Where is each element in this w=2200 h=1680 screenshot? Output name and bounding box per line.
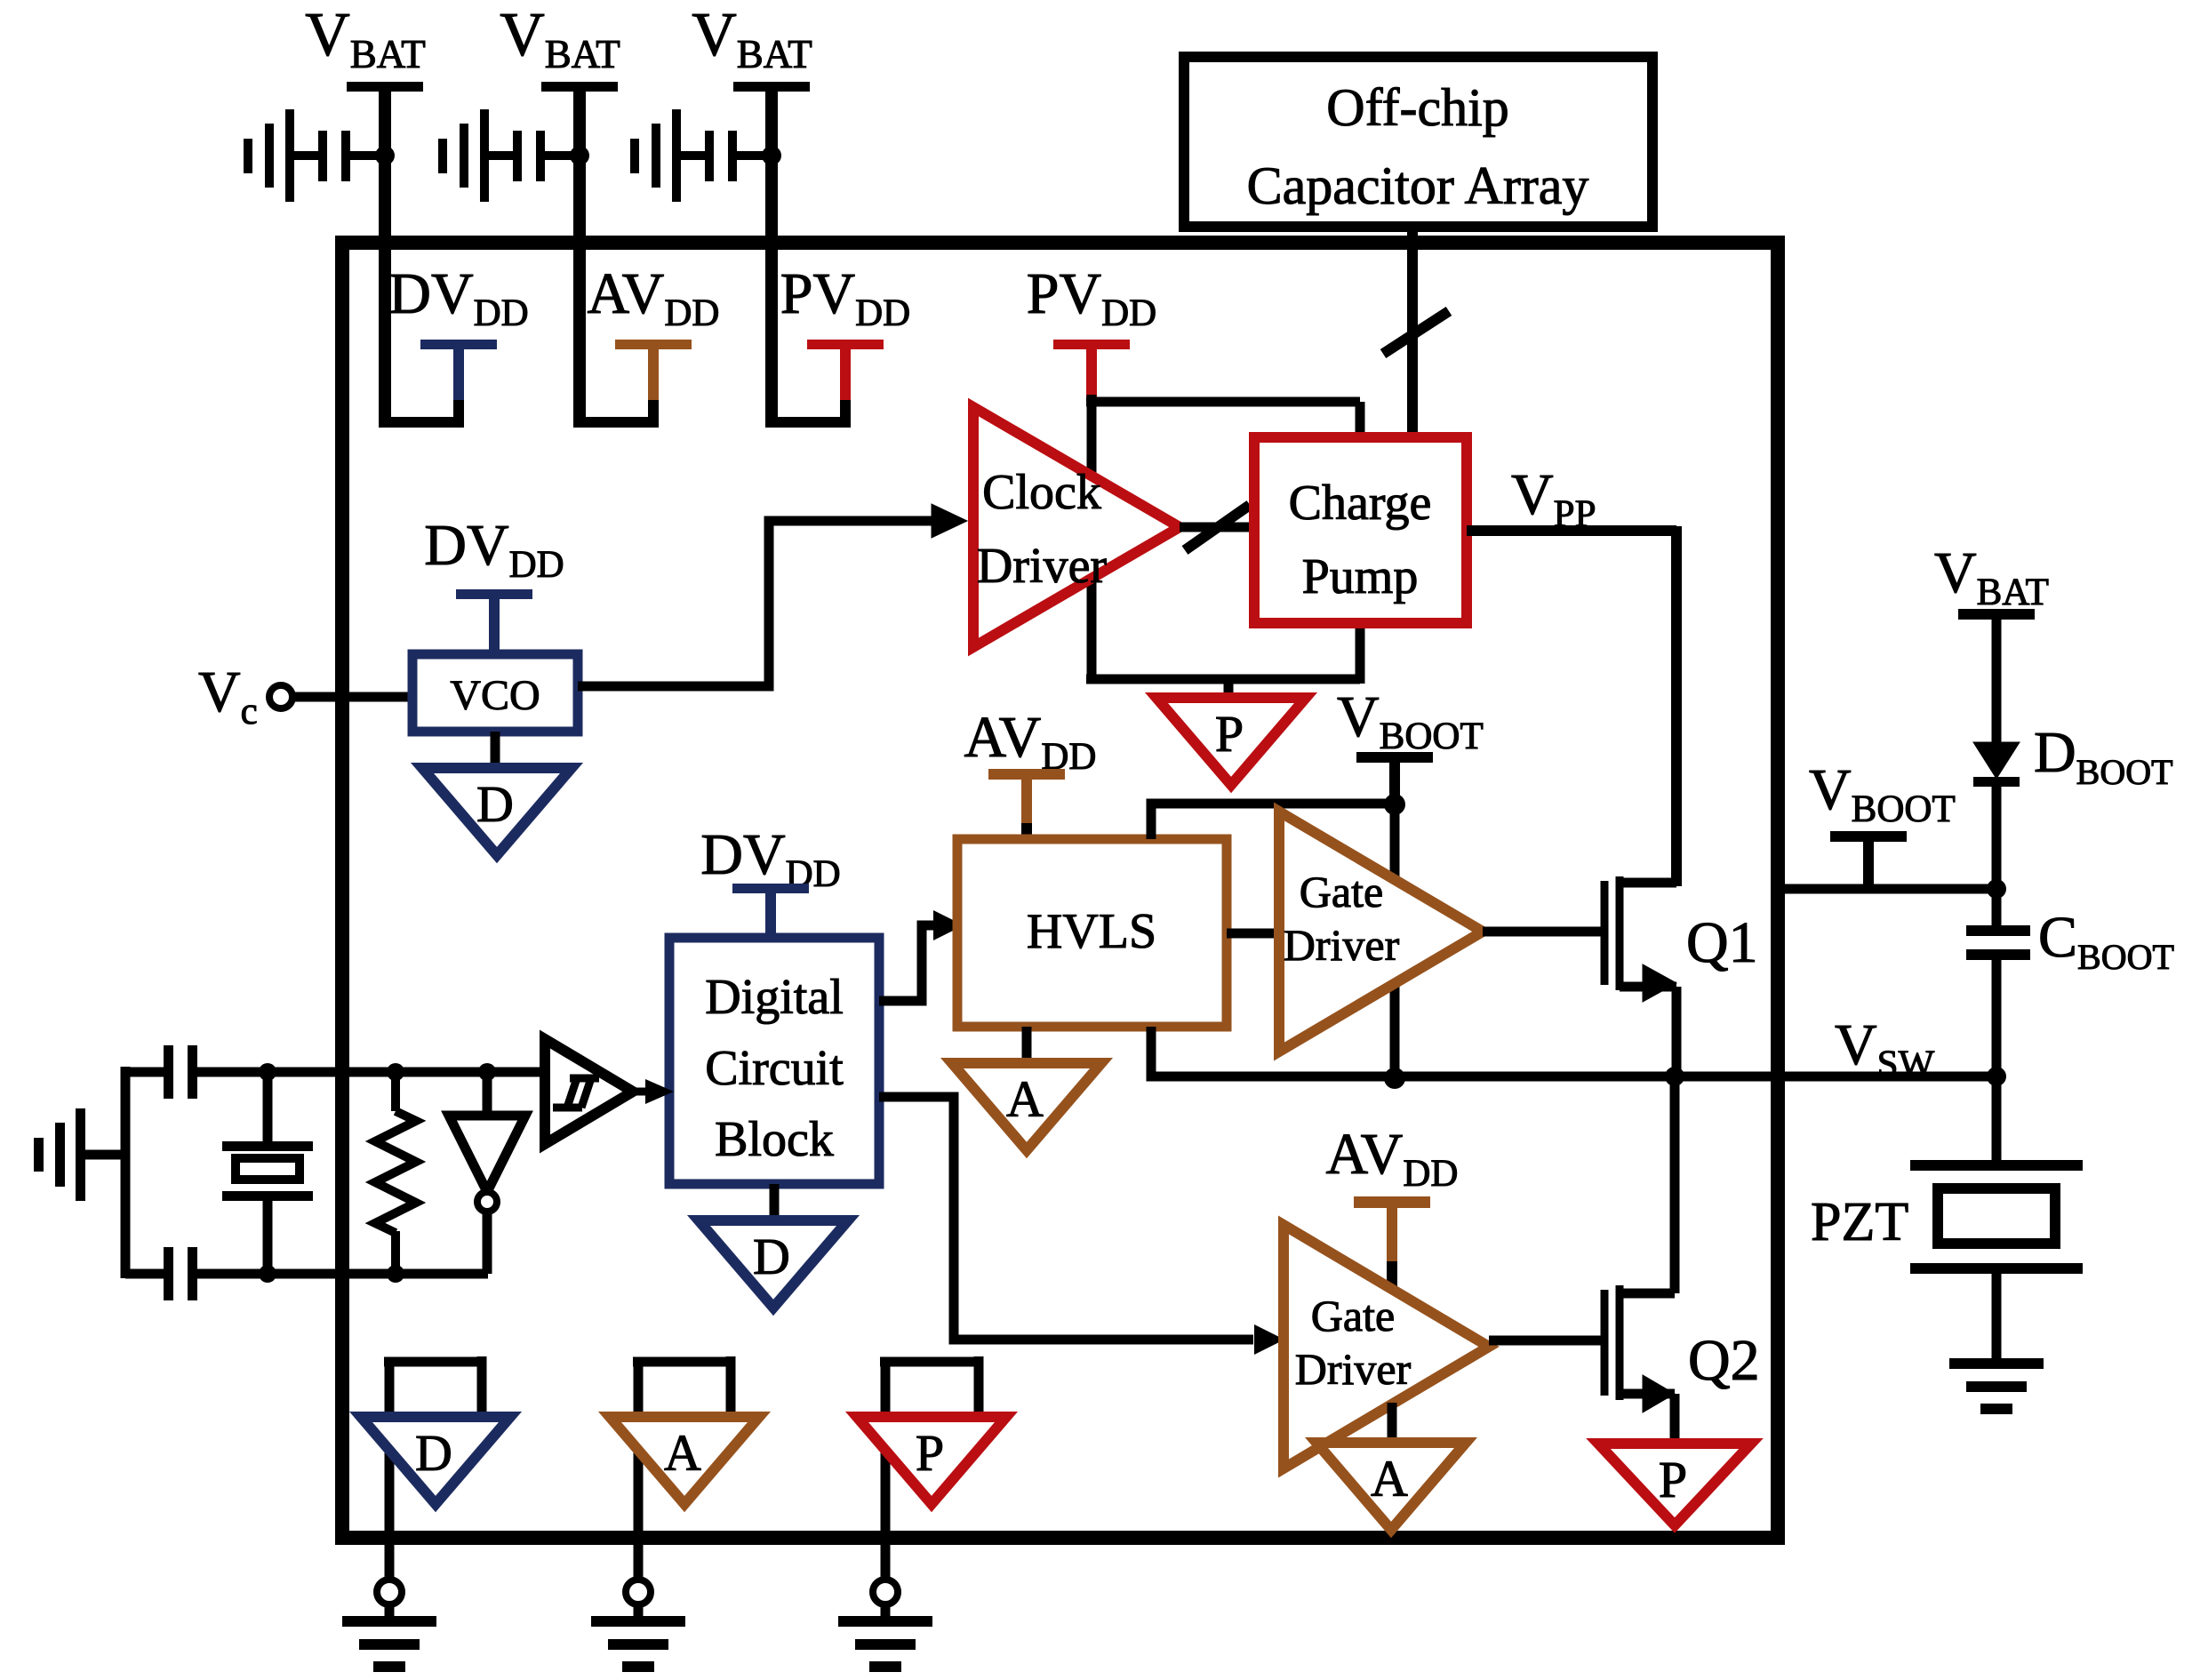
svg-text:Pump: Pump (1302, 549, 1419, 604)
wire gate driver 1 output (1483, 927, 1601, 937)
label VSW (1835, 1012, 1935, 1085)
svg-text:P: P (916, 1424, 944, 1482)
net V_BAT label 2 (500, 1, 620, 92)
svg-text:AVDD: AVDD (964, 705, 1097, 778)
wire HVLS top to VBOOT node (1151, 804, 1395, 839)
svg-text:Digital: Digital (705, 970, 844, 1025)
wire PVDD to charge pump loop (1086, 395, 1360, 684)
wire digital ground stem (770, 1184, 780, 1224)
pad A (626, 1545, 651, 1621)
ground P (charge pump) (1156, 698, 1306, 785)
ground D (pin) (361, 1417, 510, 1504)
supply symbol DVDD (420, 340, 497, 400)
bus slash on off-chip wire (1383, 311, 1449, 354)
wire V_BAT stem 2 (573, 86, 586, 422)
svg-text:PZT: PZT (1811, 1192, 1908, 1252)
capacitor C2 (bottom) (164, 1247, 197, 1300)
arrowhead into digital block (631, 1079, 674, 1104)
battery B1 (244, 109, 385, 202)
ground A (HVLS) (952, 1063, 1101, 1150)
earth ground (P) (838, 1616, 932, 1672)
transistor Q2 (1604, 1076, 1675, 1447)
svg-text:Capacitor Array: Capacitor Array (1247, 156, 1589, 215)
earth ground (D) (342, 1616, 436, 1672)
junction dot battery 1 (375, 146, 395, 165)
svg-text:A: A (1371, 1450, 1408, 1508)
wire crystal bracket (125, 1067, 165, 1278)
svg-text:D: D (415, 1424, 452, 1482)
svg-text:Gate: Gate (1300, 867, 1383, 916)
net V_BAT label 3 (692, 1, 812, 92)
ground D (VCO) (422, 768, 572, 855)
gate driver U9 (1284, 1225, 1489, 1468)
ground D (digital) (699, 1220, 848, 1308)
label PVDD (780, 261, 910, 334)
ground pin hook P (880, 1356, 979, 1538)
svg-text:A: A (664, 1424, 701, 1482)
capacitor CBOOT (1966, 889, 2030, 1076)
supply symbol AVDD (615, 340, 692, 400)
wire crystal top rail (197, 1068, 544, 1077)
junction dot VBOOT top (1384, 794, 1405, 815)
schmitt trigger U6 (545, 1039, 633, 1144)
label CBOOT (2038, 905, 2174, 977)
pin hook DVDD (379, 395, 459, 428)
junction dot VBOOT-CBOOT (1987, 879, 2006, 899)
svg-text:Q1: Q1 (1686, 910, 1758, 975)
wire VCO ground stem (491, 732, 500, 772)
svg-text:PVDD: PVDD (780, 261, 910, 334)
earth ground (PZT) (1949, 1358, 2044, 1414)
label DVDD (388, 261, 528, 334)
pin hook AVDD (573, 395, 653, 428)
label DBOOT (2034, 720, 2173, 792)
battery B2 (438, 109, 580, 202)
label PZT (1811, 1192, 1908, 1252)
svg-text:Charge: Charge (1289, 476, 1432, 531)
wire VCO output (578, 521, 935, 686)
junction dot battery 2 (570, 146, 589, 165)
wire crystal bottom rail (197, 1269, 488, 1279)
svg-text:Gate: Gate (1311, 1291, 1395, 1340)
inverter U5 (449, 1072, 525, 1274)
off-chip capacitor array box (1184, 57, 1652, 227)
svg-text:PVDD: PVDD (1027, 261, 1156, 334)
wire VSW to PZT (1992, 1076, 2002, 1165)
label VBAT right (1934, 540, 2049, 613)
wire VBOOT vertical (1390, 804, 1400, 1078)
ground pin hook A (633, 1356, 731, 1538)
arrowhead into gate driver 2 (1254, 1324, 1284, 1355)
svg-text:VCO: VCO (450, 672, 540, 719)
label AVDD hvls (964, 705, 1097, 778)
label AVDD gate driver 2 (1326, 1122, 1459, 1195)
ground P (Q2) (1598, 1444, 1751, 1525)
wire crystal ground (85, 1150, 130, 1160)
clock driver U2 (973, 407, 1180, 647)
svg-text:Driver: Driver (1284, 920, 1400, 970)
supply symbol DVDD digital (732, 884, 809, 938)
digital circuit block U4 (669, 938, 879, 1184)
piezo PZT (1910, 1160, 2083, 1362)
wire stub to P ground (1224, 679, 1234, 702)
wire VBOOT right (1785, 884, 1996, 894)
svg-text:Driver: Driver (977, 539, 1108, 594)
supply symbol AVDD gate driver 2 (1354, 1196, 1430, 1289)
svg-text:VBAT: VBAT (305, 1, 426, 76)
svg-text:D: D (753, 1228, 790, 1285)
resistor R1 (375, 1072, 416, 1274)
supply symbol VBAT right (1958, 609, 2035, 745)
capacitor C1 (top) (164, 1045, 197, 1099)
pad D (377, 1545, 402, 1621)
svg-text:P: P (1215, 705, 1244, 763)
supply symbol DVDD vco (456, 589, 532, 654)
label AVDD (588, 261, 720, 334)
svg-text:A: A (1006, 1070, 1044, 1128)
junction dot Q1 source VSW (1665, 1067, 1684, 1086)
VCO U1 (412, 654, 578, 732)
wire digital to HVLS (879, 925, 933, 1001)
junction dot VSW-CBOOT (1987, 1067, 2006, 1086)
junction dot battery 3 (762, 146, 781, 165)
wire gate driver 2 ground stem (1388, 1403, 1397, 1446)
svg-text:VBOOT: VBOOT (1809, 757, 1956, 830)
earth ground (crystal) (34, 1108, 85, 1201)
earth ground (A) (591, 1616, 685, 1672)
svg-text:AVDD: AVDD (588, 261, 720, 334)
wire off-chip array to charge pump (1407, 227, 1418, 441)
bus slash clock output (1185, 505, 1250, 550)
wire digital to gate driver 2 (879, 1097, 1253, 1340)
wire HVLS output (1227, 929, 1279, 939)
charge pump U3 (1254, 437, 1467, 623)
pad P (873, 1545, 898, 1621)
svg-text:VBAT: VBAT (500, 1, 620, 76)
ground A (gate driver 2) (1316, 1443, 1466, 1530)
svg-text:Clock: Clock (982, 465, 1101, 520)
gate driver U8 (1279, 812, 1483, 1052)
svg-text:Circuit: Circuit (705, 1041, 844, 1096)
label DVDD digital (700, 822, 840, 895)
svg-text:DBOOT: DBOOT (2034, 720, 2173, 792)
arrowhead into clock driver (932, 504, 967, 538)
svg-text:DVDD: DVDD (388, 261, 528, 334)
chip boundary (342, 243, 1778, 1538)
net V_BAT label 1 (305, 1, 426, 92)
supply symbol VBOOT right (1830, 831, 1907, 889)
label VPP (1511, 462, 1596, 535)
battery B3 (630, 109, 772, 202)
wire clock driver output (1180, 523, 1258, 532)
svg-text:Block: Block (715, 1112, 834, 1167)
svg-text:DVDD: DVDD (424, 513, 564, 586)
svg-text:Q2: Q2 (1688, 1328, 1760, 1393)
svg-text:HVLS: HVLS (1027, 904, 1156, 959)
label VBOOT internal (1337, 684, 1484, 757)
ground pin hook D (384, 1356, 482, 1538)
svg-text:Driver: Driver (1295, 1344, 1412, 1394)
supply symbol VBOOT internal (1356, 752, 1433, 804)
pin hook PVDD (765, 395, 845, 428)
ground P (pin) (857, 1417, 1006, 1504)
svg-text:VBAT: VBAT (692, 1, 812, 76)
wire HVLS ground stem (1022, 1027, 1032, 1067)
label PVDD clock (1027, 261, 1156, 334)
wire VSW rail (1151, 1027, 1996, 1076)
junction dot VSW-VBOOT (1384, 1068, 1405, 1089)
crystal X1 (222, 1072, 313, 1274)
svg-text:P: P (1659, 1451, 1687, 1508)
svg-text:VPP: VPP (1511, 462, 1596, 535)
ground A (pin) (610, 1417, 759, 1504)
svg-text:Vc: Vc (198, 660, 258, 732)
svg-text:CBOOT: CBOOT (2038, 905, 2174, 977)
wire gate driver 2 output (1489, 1336, 1601, 1346)
supply symbol PVDD clock (1053, 340, 1130, 400)
label Q2 (1688, 1328, 1760, 1393)
label Q1 (1686, 910, 1758, 975)
arrowhead into HVLS (933, 910, 964, 940)
svg-text:VSW: VSW (1835, 1012, 1935, 1085)
label Vc (198, 660, 258, 732)
svg-text:AVDD: AVDD (1326, 1122, 1459, 1195)
transistor Q1 (1604, 876, 1676, 1076)
wire V_BAT stem 3 (765, 86, 778, 422)
svg-text:VBAT: VBAT (1934, 540, 2049, 613)
wire V_BAT stem 1 (379, 86, 391, 422)
supply symbol AVDD hvls (988, 769, 1065, 839)
svg-text:VBOOT: VBOOT (1337, 684, 1484, 757)
junction dots crystal (259, 1063, 496, 1283)
wire VPP (1467, 526, 1676, 886)
supply symbol PVDD (807, 340, 884, 400)
svg-text:Off-chip: Off-chip (1326, 78, 1509, 137)
label DVDD vco (424, 513, 564, 586)
label VBOOT right (1809, 757, 1956, 830)
wire Vc input (292, 692, 412, 702)
HVLS U7 (957, 839, 1227, 1027)
svg-text:D: D (476, 775, 514, 833)
pad Vc (269, 685, 292, 708)
diode DBOOT (1973, 742, 2020, 889)
